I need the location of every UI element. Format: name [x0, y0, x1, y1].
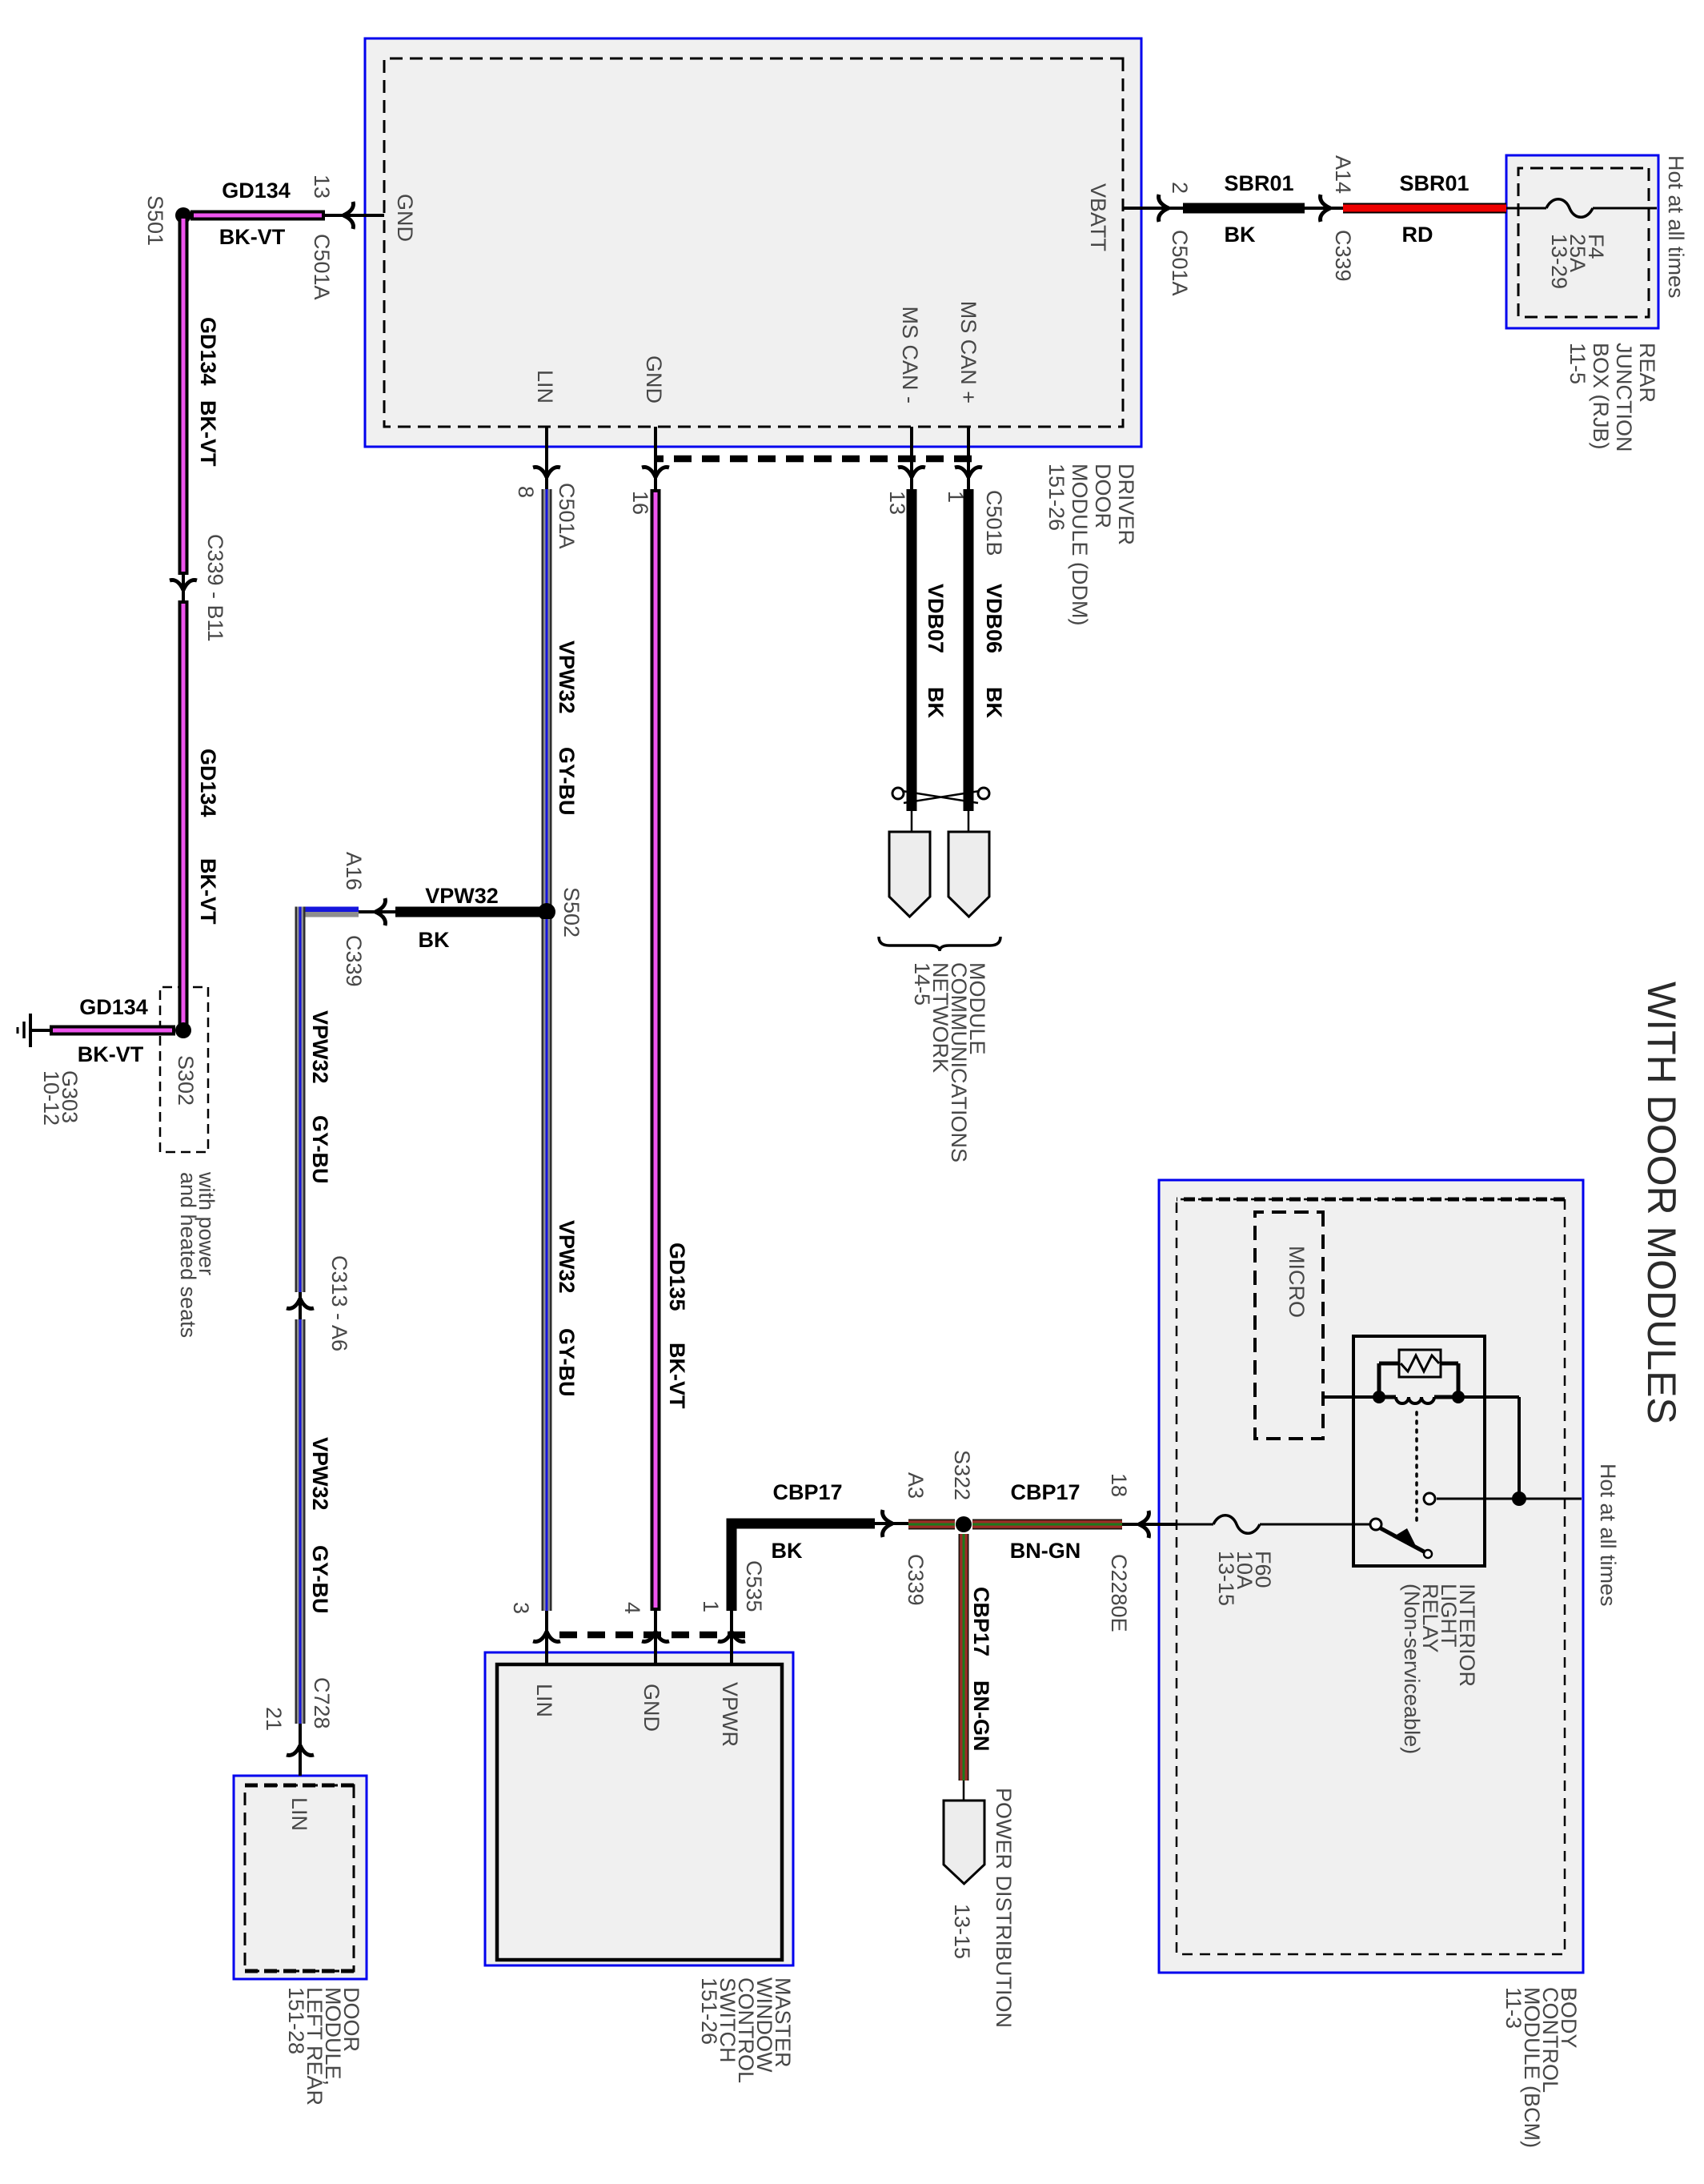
svg-text:VPW32: VPW32	[425, 884, 499, 908]
svg-text:13-15: 13-15	[950, 1904, 974, 1959]
svg-text:VBATT: VBATT	[1086, 183, 1110, 251]
svg-text:14-5: 14-5	[910, 962, 934, 1006]
svg-text:Hot at all times: Hot at all times	[1596, 1463, 1620, 1607]
svg-text:BK-VT: BK-VT	[665, 1343, 689, 1409]
svg-text:13-29: 13-29	[1547, 234, 1571, 289]
svg-text:8: 8	[514, 486, 538, 498]
svg-text:BK: BK	[1225, 223, 1256, 247]
svg-text:BK-VT: BK-VT	[219, 225, 286, 249]
svg-text:VDB06: VDB06	[982, 584, 1006, 653]
svg-text:CBP17: CBP17	[772, 1480, 842, 1504]
svg-text:RD: RD	[1402, 223, 1433, 247]
svg-text:GD134: GD134	[222, 179, 291, 203]
svg-text:LIN: LIN	[287, 1797, 311, 1831]
svg-text:BOX (RJB): BOX (RJB)	[1589, 343, 1613, 450]
svg-text:DOOR: DOOR	[1091, 464, 1115, 528]
svg-text:13: 13	[310, 175, 334, 199]
svg-text:13: 13	[885, 491, 909, 515]
svg-text:BK-VT: BK-VT	[78, 1042, 144, 1066]
svg-text:GY-BU: GY-BU	[308, 1115, 332, 1184]
svg-text:C501B: C501B	[982, 490, 1006, 556]
svg-text:21: 21	[262, 1707, 286, 1731]
svg-text:BK-VT: BK-VT	[196, 400, 220, 467]
svg-text:MICRO: MICRO	[1285, 1246, 1309, 1318]
svg-text:VPW32: VPW32	[308, 1010, 332, 1084]
svg-text:BK: BK	[924, 687, 948, 718]
svg-text:POWER DISTRIBUTION: POWER DISTRIBUTION	[992, 1788, 1016, 2028]
svg-text:A16: A16	[342, 852, 366, 890]
svg-text:GY-BU: GY-BU	[308, 1545, 332, 1614]
svg-text:VPWR: VPWR	[718, 1682, 742, 1747]
svg-text:BN-GN: BN-GN	[1010, 1539, 1081, 1563]
svg-text:13-15: 13-15	[1214, 1551, 1238, 1606]
svg-text:VPW32: VPW32	[555, 1220, 579, 1294]
svg-text:GD134: GD134	[79, 995, 148, 1019]
svg-text:C339: C339	[904, 1554, 928, 1606]
svg-text:BK: BK	[772, 1539, 803, 1563]
svg-text:C313 - A6: C313 - A6	[327, 1255, 351, 1351]
svg-text:1: 1	[699, 1600, 723, 1612]
svg-text:VPW32: VPW32	[555, 640, 579, 714]
svg-text:SBR01: SBR01	[1399, 171, 1469, 195]
svg-text:C501A: C501A	[1168, 230, 1192, 296]
svg-text:and heated seats: and heated seats	[176, 1172, 200, 1338]
svg-text:GND: GND	[642, 355, 666, 403]
svg-text:A3: A3	[904, 1472, 928, 1499]
svg-text:GD134: GD134	[196, 317, 220, 386]
svg-text:CBP17: CBP17	[969, 1587, 993, 1656]
svg-text:C339: C339	[342, 935, 366, 987]
svg-text:GND: GND	[640, 1684, 664, 1732]
svg-text:SBR01: SBR01	[1224, 171, 1293, 195]
svg-text:C728: C728	[310, 1677, 334, 1729]
svg-text:GD134: GD134	[196, 749, 220, 817]
svg-text:S302: S302	[174, 1055, 198, 1106]
svg-text:VDB07: VDB07	[924, 584, 948, 653]
svg-text:151-28: 151-28	[284, 1987, 308, 2054]
svg-text:S502: S502	[559, 887, 583, 937]
svg-text:DRIVER: DRIVER	[1114, 464, 1138, 545]
svg-text:JUNCTION: JUNCTION	[1612, 343, 1636, 452]
svg-text:MODULE (DDM): MODULE (DDM)	[1068, 464, 1092, 626]
svg-text:18: 18	[1107, 1473, 1131, 1497]
svg-text:1: 1	[944, 491, 968, 503]
svg-text:BK: BK	[419, 928, 450, 952]
svg-text:WITH DOOR MODULES: WITH DOOR MODULES	[1639, 982, 1684, 1424]
svg-text:BN-GN: BN-GN	[969, 1680, 993, 1752]
svg-text:151-26: 151-26	[697, 1977, 721, 2045]
svg-text:LIN: LIN	[532, 1684, 556, 1717]
svg-text:Hot at all times: Hot at all times	[1664, 155, 1688, 299]
svg-text:16: 16	[628, 491, 652, 515]
svg-text:VPW32: VPW32	[308, 1437, 332, 1511]
svg-text:11-5: 11-5	[1566, 343, 1590, 384]
svg-text:GY-BU: GY-BU	[555, 747, 579, 816]
svg-text:BK-VT: BK-VT	[196, 858, 220, 925]
svg-text:10-12: 10-12	[39, 1070, 63, 1126]
svg-text:C339 - B11: C339 - B11	[203, 534, 227, 642]
svg-text:A14: A14	[1331, 155, 1355, 194]
svg-text:CBP17: CBP17	[1010, 1480, 1080, 1504]
svg-text:11-3: 11-3	[1502, 1987, 1526, 2029]
svg-text:(Non-serviceable): (Non-serviceable)	[1400, 1584, 1424, 1754]
svg-text:S322: S322	[950, 1450, 974, 1500]
svg-text:4: 4	[620, 1602, 644, 1614]
svg-text:3: 3	[509, 1602, 533, 1614]
svg-text:GD135: GD135	[665, 1243, 689, 1311]
svg-text:GND: GND	[393, 194, 417, 242]
svg-text:S501: S501	[143, 195, 167, 246]
svg-text:C501A: C501A	[555, 483, 579, 549]
svg-text:REAR: REAR	[1635, 343, 1659, 403]
svg-text:C2280E: C2280E	[1107, 1554, 1131, 1632]
svg-text:C501A: C501A	[310, 234, 334, 300]
svg-text:LIN: LIN	[533, 370, 557, 403]
svg-text:BK: BK	[982, 687, 1006, 718]
svg-text:MS CAN +: MS CAN +	[956, 301, 980, 403]
svg-text:151-26: 151-26	[1044, 464, 1069, 531]
svg-text:C339: C339	[1331, 230, 1355, 282]
svg-text:C535: C535	[742, 1560, 766, 1612]
svg-text:MS CAN -: MS CAN -	[898, 307, 922, 404]
svg-text:2: 2	[1168, 182, 1192, 194]
svg-text:GY-BU: GY-BU	[555, 1328, 579, 1397]
